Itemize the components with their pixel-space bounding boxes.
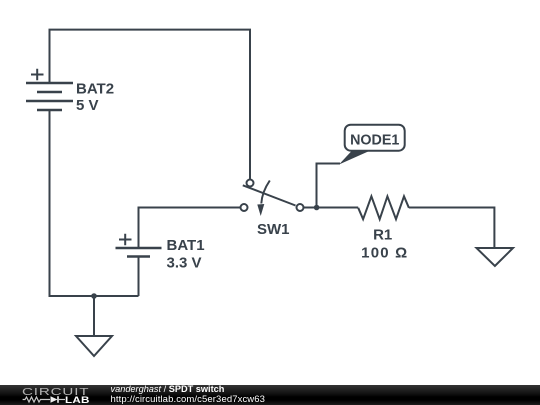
svg-text:BAT1: BAT1 [167,237,205,254]
svg-text:5 V: 5 V [76,97,99,114]
svg-text:BAT2: BAT2 [76,81,114,98]
svg-text:SW1: SW1 [257,221,290,238]
svg-text:NODE1: NODE1 [350,132,399,148]
svg-text:R1: R1 [373,227,392,244]
svg-text:100 Ω: 100 Ω [361,244,408,261]
svg-text:3.3 V: 3.3 V [167,254,202,271]
